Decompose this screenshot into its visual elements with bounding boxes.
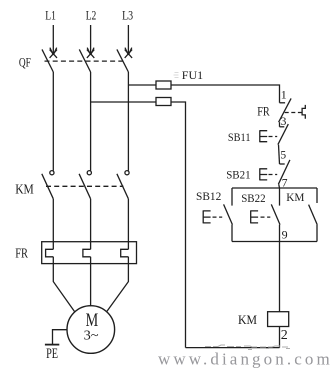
svg-text:www.diangon.com: www.diangon.com	[158, 350, 332, 369]
svg-text:KM: KM	[15, 183, 34, 198]
wire L2 supply drop with arrowhead	[87, 25, 94, 55]
wire node3 segment	[279, 122, 281, 127]
svg-text:FU1: FU1	[182, 68, 203, 82]
wire phase 1 vertical	[52, 72, 54, 171]
pushbutton SB11 dashed link	[269, 136, 278, 138]
wire SB22 branch through node 9 down to coil	[279, 225, 281, 312]
wire phase 3 vertical	[127, 72, 129, 171]
motor M circle	[67, 306, 115, 354]
svg-text:KM: KM	[286, 190, 305, 204]
pushbutton SB22 dashed link	[261, 216, 271, 218]
overload FR heater element 1	[46, 249, 54, 256]
relay contact FR actuator dashed link	[285, 112, 302, 114]
wire phase 1 to overload	[52, 199, 54, 250]
relay FR trip element symbol	[302, 105, 305, 119]
contactor KM main blade 3	[117, 174, 128, 199]
pushbutton SB12 actuator E	[203, 210, 210, 223]
pushbutton SB21 actuator E	[260, 168, 267, 180]
relay contact FR blade	[279, 98, 292, 122]
pushbutton SB22 actuator E	[251, 210, 258, 223]
wire branch L2 to fuse FU1 lower	[91, 101, 156, 103]
wire motor lead 3	[107, 257, 129, 312]
contactor coil KM rectangle	[268, 312, 289, 327]
pushbutton SB11 blade	[278, 124, 288, 145]
svg-text:3~: 3~	[84, 328, 99, 343]
svg-text:SB22: SB22	[241, 191, 265, 205]
pushbutton SB21 dashed link	[269, 174, 278, 176]
svg-text:SB21: SB21	[226, 167, 250, 181]
contactor KM auxiliary lower wire	[316, 225, 318, 242]
overload relay FR enclosure	[42, 242, 137, 264]
svg-text:FR: FR	[15, 246, 28, 261]
pushbutton SB11 actuator E	[260, 130, 267, 142]
wire node5 segment	[279, 145, 280, 164]
earth PE bar	[45, 344, 59, 346]
breaker QF pole 2 contact cross	[87, 50, 94, 58]
scan artifact smudge left of FU1	[174, 73, 179, 78]
pushbutton SB21 blade	[278, 160, 290, 184]
fuse FU1 lower element	[156, 98, 171, 106]
wire phase 3 to overload	[127, 199, 129, 250]
wire phase 2 to overload	[90, 199, 92, 250]
wire motor to PE	[53, 330, 68, 344]
contactor KM auxiliary contact upper wire	[316, 188, 318, 203]
wire L1 supply drop with arrowhead	[50, 25, 57, 55]
pushbutton SB12 dashed link	[213, 216, 223, 218]
wire phase 2 vertical	[90, 72, 92, 171]
contactor KM main blade 2	[79, 174, 91, 199]
svg-text:2: 2	[281, 328, 288, 343]
wire L3 supply drop with arrowhead	[125, 25, 132, 55]
overload FR heater element 3	[121, 249, 129, 256]
contactor KM main contact 2 arc terminal	[87, 171, 91, 175]
wire parallel bottom rail	[232, 241, 317, 243]
breaker QF pole 1 blade	[42, 49, 53, 72]
breaker QF pole 3 blade	[117, 49, 128, 72]
wire coil bottom down	[279, 327, 281, 348]
relay contact FR normally-closed: terminal tick	[280, 102, 286, 104]
breaker QF linkage dashed line	[45, 60, 124, 62]
pushbutton SB22 blade	[271, 204, 280, 224]
svg-text:L1: L1	[45, 8, 56, 22]
faint small watermark squiggle	[205, 345, 290, 350]
wire node7 segment	[278, 184, 281, 188]
overload FR heater element 2	[83, 249, 91, 256]
svg-text:5: 5	[280, 149, 286, 161]
wire control bottom return	[186, 347, 280, 349]
svg-text:1: 1	[281, 87, 287, 101]
contactor KM main contact 1 arc terminal	[50, 171, 54, 175]
svg-text:PE: PE	[46, 346, 58, 362]
svg-text:FR: FR	[257, 105, 270, 119]
wire motor lead 2	[90, 257, 92, 306]
wire fuse lower to left control rail	[171, 102, 186, 348]
wire fuse upper to control corner	[171, 85, 280, 103]
pushbutton SB21 terminal tick	[280, 163, 285, 165]
svg-text:9: 9	[282, 228, 288, 242]
svg-text:KM: KM	[238, 313, 257, 327]
pushbutton SB22 branch upper wire	[279, 188, 281, 206]
svg-text:L2: L2	[86, 8, 97, 22]
wire branch L3 to fuse FU1 upper	[128, 84, 156, 86]
pushbutton SB12 blade	[224, 204, 233, 224]
svg-text:L3: L3	[122, 8, 133, 22]
contactor KM auxiliary blade	[309, 205, 318, 225]
wire parallel top rail	[232, 187, 317, 189]
svg-text:QF: QF	[19, 54, 31, 69]
contactor KM main blade 1	[42, 174, 54, 199]
breaker QF pole 2 blade	[79, 49, 90, 72]
pushbutton SB12 branch upper wire	[231, 188, 233, 206]
contactor KM main contact 3 arc terminal	[125, 171, 129, 175]
pushbutton SB12 branch lower wire	[231, 225, 233, 242]
breaker QF pole 3 contact cross	[125, 50, 132, 58]
pushbutton SB11 terminal tick	[280, 126, 285, 128]
breaker QF pole 1 contact cross	[50, 50, 57, 58]
svg-text:SB12: SB12	[196, 189, 221, 203]
wire motor lead 1	[53, 257, 74, 312]
fuse FU1 upper element	[156, 81, 171, 89]
contactor KM linkage dashed line	[46, 185, 124, 187]
svg-text:SB11: SB11	[228, 130, 251, 144]
